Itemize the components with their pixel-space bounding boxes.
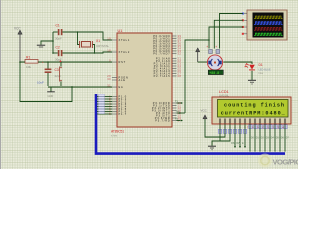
wire XTAL1 rail	[62, 32, 112, 40]
svg-text:30: 30	[107, 77, 111, 81]
U1 left pin names	[119, 38, 131, 89]
wire LCD E	[242, 124, 246, 148]
wire LCD VEE	[220, 124, 230, 141]
P1 bus entry wires	[97, 97, 112, 115]
U1 P1 pins	[109, 94, 127, 116]
P1 wire net labels	[99, 94, 105, 113]
LED D1	[244, 63, 271, 80]
svg-text:ALE: ALE	[119, 78, 126, 82]
U1 right P3 pins	[152, 101, 182, 123]
ground (LED)	[248, 80, 256, 84]
svg-text:+88.8: +88.8	[209, 71, 219, 75]
wire caps common	[52, 32, 54, 53]
svg-text:P2.7/A15: P2.7/A15	[154, 74, 171, 78]
sheet left edge	[0, 0, 2, 169]
svg-text:R1: R1	[26, 56, 30, 60]
ground (LCD)	[208, 146, 216, 150]
svg-text:U1: U1	[118, 29, 123, 33]
svg-text:C1: C1	[56, 24, 60, 28]
capacitor C1	[53, 24, 62, 41]
ground (caps)	[37, 45, 45, 47]
svg-text:28: 28	[178, 74, 182, 78]
motor RPM readout	[208, 70, 223, 75]
wire LCD VSS to ground	[212, 124, 220, 146]
svg-text:AT89C51: AT89C51	[111, 130, 124, 134]
power arrow (motor)	[196, 48, 200, 62]
power VCC (left)	[14, 27, 22, 63]
svg-text:+: +	[42, 60, 44, 64]
svg-text:22uF: 22uF	[55, 74, 62, 78]
LCD pin numbers	[219, 125, 284, 129]
wire LCD VDD to VCC	[205, 119, 225, 137]
svg-text:32: 32	[178, 51, 182, 55]
bus P1 to LCD	[96, 94, 285, 154]
svg-text:VCC: VCC	[14, 27, 21, 31]
svg-text:10uF: 10uF	[37, 81, 44, 85]
scope trace B	[254, 22, 283, 25]
wire motor left	[198, 61, 207, 63]
svg-text:EA: EA	[119, 85, 124, 89]
svg-text:P0.7/AD7: P0.7/AD7	[153, 51, 170, 55]
U1 right P0 pins	[153, 34, 181, 56]
svg-text:18: 18	[107, 49, 111, 53]
push button (reset)	[59, 60, 61, 86]
oscilloscope	[242, 10, 287, 40]
svg-text:30pF: 30pF	[55, 58, 62, 62]
svg-text:blue: blue	[259, 72, 264, 75]
svg-text:X1: X1	[96, 39, 100, 43]
svg-text:s.hex: s.hex	[111, 134, 118, 138]
ground (reset)	[47, 87, 55, 98]
svg-text:+: +	[206, 45, 208, 49]
crystal X1	[77, 31, 110, 54]
capacitor C3	[37, 60, 62, 86]
wire scope chC	[209, 27, 243, 49]
svg-text:C3: C3	[55, 68, 59, 72]
svg-text:counting finish: counting finish	[224, 103, 285, 109]
wires LCD D0-D7 to bus	[250, 124, 285, 152]
U1 left pin stubs	[112, 40, 117, 87]
scope trace C	[254, 28, 283, 31]
power VCC (LCD)	[201, 109, 208, 119]
svg-text:P3.7/RD: P3.7/RD	[155, 118, 170, 122]
U1 right P2 pins	[154, 56, 182, 78]
resistor R1	[25, 56, 38, 69]
svg-text:RST: RST	[119, 60, 127, 64]
wire LCD RW	[237, 124, 242, 148]
wire motor to LED	[223, 62, 252, 64]
svg-text:CRYSTAL: CRYSTAL	[96, 44, 109, 48]
wire XTAL2 rail	[62, 52, 112, 53]
terminal tag P3.0	[175, 99, 183, 104]
wire VCC down-left rail	[20, 62, 112, 102]
svg-text:9: 9	[109, 59, 111, 63]
wire motor drive from P3.4	[176, 40, 209, 114]
background grid	[0, 0, 298, 169]
wire LCD RS	[231, 124, 236, 148]
svg-text:19: 19	[107, 37, 111, 41]
wire VCC to RST rail	[19, 61, 21, 63]
svg-text:D1: D1	[259, 63, 263, 67]
svg-text:P1.7: P1.7	[119, 112, 127, 116]
watermark logo	[258, 154, 305, 168]
svg-text:30pF: 30pF	[55, 37, 62, 41]
LCD pin stubs	[220, 119, 285, 124]
junction drive/chC	[208, 39, 210, 41]
svg-text:XTAL1: XTAL1	[119, 38, 131, 42]
svg-text:RS: RS	[231, 142, 235, 145]
svg-text:VCC: VCC	[201, 109, 208, 113]
LCD pin net labels	[218, 125, 287, 134]
terminal tag P3.7	[175, 117, 183, 122]
LCD LM016L	[212, 97, 291, 124]
svg-text:GND: GND	[48, 94, 54, 98]
capacitor C2	[53, 46, 62, 62]
svg-text:currentRPM:0480_: currentRPM:0480_	[221, 111, 286, 117]
wire RST rail	[20, 61, 112, 63]
D0-D7 wire labels	[251, 137, 290, 140]
scope trace A	[254, 16, 283, 19]
svg-text:31: 31	[107, 84, 111, 88]
svg-text:10k: 10k	[26, 65, 31, 69]
svg-text:XTAL2: XTAL2	[119, 50, 131, 54]
svg-text:+: +	[215, 45, 217, 49]
motor M1	[206, 45, 222, 70]
svg-text:C2: C2	[56, 46, 60, 50]
svg-text:VOG/PICE: VOG/PICE	[273, 158, 299, 167]
wire scope chB	[214, 20, 243, 48]
wire scope chA	[220, 14, 244, 49]
MCU U1	[111, 29, 172, 138]
U1 left pin numbers	[107, 37, 111, 88]
scope trace D	[254, 33, 283, 35]
